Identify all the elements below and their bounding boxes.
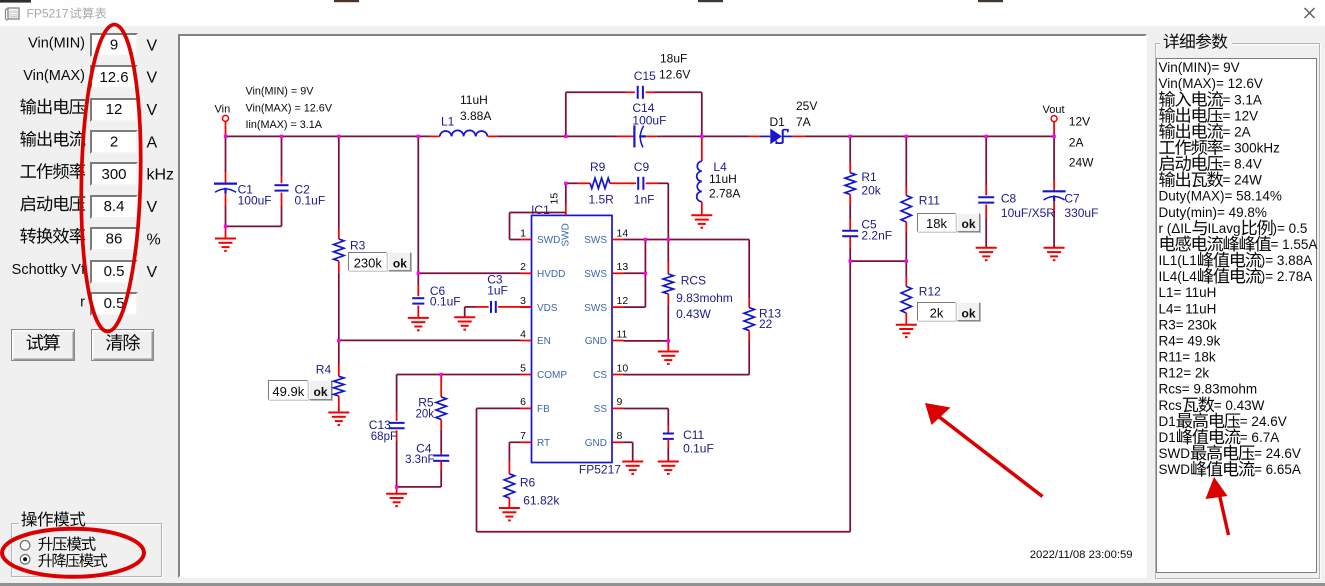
button 试算 <box>11 329 75 361</box>
pin 8 GND stub <box>585 430 624 449</box>
svg-text:ok: ok <box>393 257 407 271</box>
parameter line Vin(MAX)= 12.6V <box>1159 76 1263 91</box>
ground below C8 <box>976 248 997 260</box>
pin 2 HVDD stub <box>520 261 565 280</box>
input value 300 <box>101 166 126 183</box>
svg-text:R4: R4 <box>316 363 332 377</box>
svg-text:V: V <box>147 102 158 119</box>
svg-text:C8: C8 <box>1001 192 1017 206</box>
pin 11 GND stub <box>585 328 628 347</box>
svg-text:C7: C7 <box>1064 192 1080 206</box>
unit V <box>147 37 158 54</box>
svg-text:7: 7 <box>520 430 526 442</box>
label C11 0.1uF <box>683 428 714 455</box>
resistor R3 <box>334 136 344 340</box>
svg-text:= 12V: = 12V <box>1223 108 1259 123</box>
resistor R1 <box>845 136 855 219</box>
red ellipse around radio buttons <box>2 529 144 577</box>
svg-text:Schottky Vf: Schottky Vf <box>12 262 86 278</box>
svg-text:IC1: IC1 <box>531 203 550 217</box>
button 清除 <box>91 329 154 361</box>
svg-text:25V: 25V <box>796 99 817 113</box>
svg-text:SWS: SWS <box>584 235 607 246</box>
pin 12 SWS stub <box>584 295 628 314</box>
Vin terminal <box>215 103 231 136</box>
svg-text:0.5: 0.5 <box>104 263 125 280</box>
wire SS pin9 to C11 <box>624 409 669 426</box>
svg-text:A: A <box>147 134 158 151</box>
wire bottom of compensation branch <box>397 486 442 488</box>
wire R3 to EN and resistor R4 <box>334 341 344 413</box>
resistor R13 <box>744 240 754 375</box>
parameter line D1最高电压= 24.6V <box>1159 413 1287 429</box>
svg-text:ok: ok <box>961 217 975 231</box>
input box <box>90 130 138 154</box>
wire SWS pin14 node <box>624 239 750 241</box>
svg-text:9: 9 <box>110 36 118 53</box>
window bottom edge <box>0 583 1325 586</box>
label R11 <box>919 194 940 208</box>
radio label 升压模式 <box>38 537 95 551</box>
svg-text:= 300kHz: = 300kHz <box>1223 141 1281 156</box>
svg-text:R3: R3 <box>350 239 366 253</box>
svg-text:20k: 20k <box>861 183 881 197</box>
svg-text:%: % <box>147 231 161 248</box>
unit V <box>147 264 158 281</box>
svg-text:100uF: 100uF <box>238 194 272 208</box>
svg-text:4: 4 <box>520 328 526 340</box>
input row label 输出电压 <box>20 98 85 114</box>
svg-text:2: 2 <box>110 134 118 151</box>
svg-text:Iin(MAX) = 3.1A: Iin(MAX) = 3.1A <box>246 119 323 131</box>
capacitor C8 <box>978 136 994 247</box>
svg-text:SS: SS <box>594 404 608 415</box>
pin 6 FB stub <box>520 396 550 415</box>
svg-text:)= 0.5: )= 0.5 <box>1273 221 1308 236</box>
ground below C3 wire <box>454 317 475 329</box>
capacitor C5 <box>842 219 858 261</box>
red arrow pointing at SWD峰值电流 line <box>1206 477 1229 535</box>
svg-text:D1: D1 <box>1159 430 1176 445</box>
IC1 FP5217 body <box>532 215 613 462</box>
parameter line 输出瓦数= 24W <box>1159 171 1262 187</box>
svg-text:R1: R1 <box>861 170 877 184</box>
ok label <box>393 257 407 271</box>
value text 2k <box>930 306 944 321</box>
svg-text:Duty(MAX)= 58.14%: Duty(MAX)= 58.14% <box>1159 189 1282 204</box>
label C7 330uF <box>1064 192 1098 220</box>
svg-text:SWD: SWD <box>537 235 560 246</box>
svg-text:CS: CS <box>593 370 607 381</box>
capacitor C3 on VDS pin <box>465 301 532 317</box>
label R13 22 <box>759 306 781 331</box>
label L4 11uH 2.78A <box>709 160 740 201</box>
button 清除 label <box>106 334 140 351</box>
svg-text:8: 8 <box>617 430 623 442</box>
unit V <box>147 70 158 87</box>
feedback node wire C5 R11 R12 <box>850 260 906 262</box>
radio button 升降压模式 (selected) <box>20 555 30 565</box>
svg-text:Vin(MIN)= 9V: Vin(MIN)= 9V <box>1159 60 1240 75</box>
value text 18k <box>926 216 947 231</box>
ground below L4 <box>691 215 712 227</box>
parameter line 工作频率= 300kHz <box>1159 139 1280 155</box>
svg-text:61.82k: 61.82k <box>523 493 560 507</box>
dark fragments of background window along top edge <box>0 0 1003 3</box>
parameter line L1= 11uH <box>1159 285 1217 300</box>
parameter line Duty(min)= 49.8% <box>1159 205 1267 220</box>
wire bus C14 to D1 <box>662 135 750 137</box>
wire feedback node down to bottom loop <box>849 261 851 532</box>
label RCS 9.83mohm 0.43W <box>676 274 733 321</box>
svg-text:11: 11 <box>617 328 628 340</box>
svg-text:R3= 230k: R3= 230k <box>1159 317 1217 332</box>
svg-text:FP5217: FP5217 <box>27 7 69 21</box>
red arrow annotation in schematic <box>925 403 1043 497</box>
capacitor C14 polarized on bus <box>617 125 662 147</box>
parameter line R3= 230k <box>1159 317 1217 332</box>
svg-text:12: 12 <box>106 101 123 118</box>
label C5 2.2nF <box>861 218 892 243</box>
label C8 10uF/X5R <box>1001 192 1055 220</box>
svg-text:R11= 18k: R11= 18k <box>1159 350 1216 365</box>
svg-text:13: 13 <box>617 261 629 273</box>
input row label 输出电流 <box>20 131 85 147</box>
svg-text:12.6V: 12.6V <box>659 67 690 81</box>
svg-text:C11: C11 <box>683 428 704 442</box>
svg-text:230k: 230k <box>354 256 383 271</box>
svg-text:Vin(MAX): Vin(MAX) <box>23 68 85 84</box>
ok button <box>309 380 332 399</box>
parameter line IL1(L1峰值电流)= 3.88A <box>1159 252 1313 268</box>
ground below R4 <box>328 413 349 425</box>
svg-text:86: 86 <box>106 231 123 248</box>
capacitor C6 <box>412 273 424 317</box>
svg-text:10uF/X5R: 10uF/X5R <box>1001 206 1055 220</box>
svg-text:100uF: 100uF <box>632 113 666 127</box>
unit V <box>147 102 158 119</box>
wire main input bus <box>226 135 430 137</box>
svg-text:D1: D1 <box>770 115 786 129</box>
label D1 25V 7A <box>770 99 818 129</box>
window title bar <box>0 0 1325 26</box>
svg-text:ILavg: ILavg <box>1208 221 1241 236</box>
schematic annotation Vin(MIN) = 9V, Vin(MAX) = 12.6V, Iin(MAX) = 3.1A <box>246 86 333 131</box>
svg-text:GND: GND <box>585 336 607 347</box>
capacitor C2 <box>275 136 289 226</box>
svg-text:49.9k: 49.9k <box>272 384 304 399</box>
pin 10 CS stub <box>593 362 628 381</box>
svg-text:L1: L1 <box>441 114 455 128</box>
label R6 61.82k <box>520 476 560 508</box>
groupbox label 详细参数 <box>1160 33 1232 49</box>
radio label 升降压模式 <box>38 553 107 567</box>
label R5 20k <box>415 396 434 421</box>
ok button <box>388 252 411 271</box>
svg-text:22: 22 <box>759 317 773 331</box>
svg-text:Vin(MIN): Vin(MIN) <box>28 36 85 52</box>
input row label Vin(MIN) <box>28 36 85 52</box>
ground below R6 <box>499 508 520 520</box>
svg-text:SWD: SWD <box>1159 446 1191 461</box>
value box 49.9k <box>268 380 308 399</box>
ground at pin11 RCS node <box>658 341 679 364</box>
svg-text:L4= 11uH: L4= 11uH <box>1159 301 1217 316</box>
input value 0.5 <box>104 263 125 280</box>
wire bus L1 to C14 <box>497 135 617 137</box>
ground below compensation branch <box>386 487 407 506</box>
parameter line Vin(MIN)= 9V <box>1159 60 1240 75</box>
svg-text:14: 14 <box>617 227 629 239</box>
wire EN pin4 <box>339 339 521 341</box>
input value 0.5 <box>104 295 125 312</box>
label C4 3.3nF <box>405 442 434 466</box>
parameter line R12= 2k <box>1159 366 1210 381</box>
svg-text:10: 10 <box>617 362 629 374</box>
label R3 <box>350 239 366 253</box>
value box 2k <box>917 302 957 321</box>
svg-text:SWD: SWD <box>1159 462 1191 477</box>
input box <box>90 292 138 316</box>
svg-text:V: V <box>147 70 158 87</box>
ok button <box>957 302 980 321</box>
parameter line 电感电流峰峰值= 1.55A <box>1161 236 1318 252</box>
diode D1 schottky <box>750 129 805 145</box>
upper loop with C15 <box>566 86 702 137</box>
svg-text:V: V <box>147 37 158 54</box>
label C15 18uF 12.6V <box>634 51 691 83</box>
svg-text:2022/11/08 23:00:59: 2022/11/08 23:00:59 <box>1030 549 1133 561</box>
ground below R12 <box>896 325 917 337</box>
value text 49.9k <box>272 384 304 399</box>
input row label r <box>80 294 85 310</box>
window title bar icon <box>6 8 20 21</box>
input box <box>90 162 138 186</box>
label IC1 <box>531 203 550 217</box>
capacitor C4 <box>433 453 449 487</box>
groupbox 详细参数 <box>1155 43 1320 579</box>
parameter listbox <box>1156 58 1317 574</box>
parameter line R4= 49.9k <box>1159 334 1221 349</box>
svg-text:kHz: kHz <box>147 167 175 184</box>
svg-text:R11: R11 <box>919 194 940 208</box>
capacitor C7 polarized <box>1043 136 1066 247</box>
button 试算 label <box>27 334 60 351</box>
input box <box>90 65 138 89</box>
parameter line L4= 11uH <box>1159 301 1217 316</box>
wire HVDD branch from bus <box>417 136 419 273</box>
parameter line 输出电流= 2A <box>1159 123 1250 139</box>
parameter line IL4(L4峰值电流)= 2.78A <box>1159 268 1313 284</box>
svg-text:r: r <box>80 294 85 310</box>
svg-text:0.43W: 0.43W <box>676 307 711 321</box>
pin 5 COMP stub <box>520 362 567 381</box>
svg-text:2: 2 <box>520 261 526 273</box>
input value 8.4 <box>104 198 125 215</box>
ground below C11 <box>658 462 679 474</box>
label C1 100uF <box>238 183 272 208</box>
inductor L4 <box>697 136 702 214</box>
svg-text:V: V <box>147 264 158 281</box>
svg-text:C13: C13 <box>369 418 391 432</box>
svg-text:EN: EN <box>537 336 551 347</box>
input value 12.6 <box>99 69 128 86</box>
svg-text:= 1.55A: = 1.55A <box>1271 237 1318 252</box>
svg-text:Duty(min)= 49.8%: Duty(min)= 49.8% <box>1159 205 1267 220</box>
svg-text:20k: 20k <box>415 408 434 420</box>
resistor R12 <box>901 261 911 324</box>
svg-text:Rcs: Rcs <box>1159 398 1182 413</box>
unit % <box>147 231 161 248</box>
svg-text:Vin(MAX) = 12.6V: Vin(MAX) = 12.6V <box>246 102 333 114</box>
label R1 20k <box>861 170 881 198</box>
R9 C9 snubber line <box>566 177 669 240</box>
window title text FP5217试算表 <box>27 7 107 21</box>
input row label 启动电压 <box>20 195 85 211</box>
pin 13 SWS stub <box>584 261 628 280</box>
wire CS pin10 <box>624 374 750 376</box>
svg-text:C15: C15 <box>634 69 656 83</box>
label C6 0.1uF <box>430 284 461 309</box>
svg-text:SWS: SWS <box>584 303 607 314</box>
pin 15 stub and label <box>549 183 572 246</box>
svg-text:9.83mohm: 9.83mohm <box>676 291 733 305</box>
parameter line Rcs= 9.83mohm <box>1159 382 1258 397</box>
input row label 工作频率 <box>20 163 85 179</box>
input box <box>90 33 138 57</box>
svg-text:11uH: 11uH <box>709 172 737 186</box>
ok label <box>961 307 975 321</box>
wire GND pin11 <box>624 340 669 342</box>
svg-text:3: 3 <box>520 295 526 307</box>
svg-text:18uF: 18uF <box>660 51 687 65</box>
svg-text:)= 2.78A: )= 2.78A <box>1261 269 1312 284</box>
svg-text:24W: 24W <box>1069 155 1094 169</box>
capacitor C1 polarized <box>214 136 237 226</box>
wire bottom feedback loop <box>477 408 851 531</box>
label C14 100uF <box>632 101 666 128</box>
svg-text:2.2nF: 2.2nF <box>861 228 892 242</box>
input box <box>90 195 138 219</box>
parameter line r (ΔIL与ILavg比例)= 0.5 <box>1159 220 1308 236</box>
svg-text:= 6.7A: = 6.7A <box>1240 430 1279 445</box>
svg-text:= 24.6V: = 24.6V <box>1240 414 1287 429</box>
svg-text:)= 3.88A: )= 3.88A <box>1261 253 1312 268</box>
svg-text:68pF: 68pF <box>371 431 397 443</box>
pin 4 EN stub <box>520 328 551 347</box>
wire C2 bottom to C1 bottom <box>226 225 282 227</box>
schematic panel <box>178 34 1147 578</box>
svg-text:= 24.6V: = 24.6V <box>1254 446 1301 461</box>
svg-text:Vin(MIN) = 9V: Vin(MIN) = 9V <box>246 86 315 98</box>
wire RT pin7 and resistor R6 <box>504 442 520 507</box>
svg-text:ok: ok <box>961 307 975 321</box>
svg-text:L1= 11uH: L1= 11uH <box>1159 285 1217 300</box>
svg-text:GND: GND <box>585 438 607 449</box>
parameter line SWD最高电压= 24.6V <box>1159 445 1301 461</box>
input value 9 <box>110 36 118 53</box>
ok label <box>961 217 975 231</box>
pin1 SWD loop wire <box>510 213 566 240</box>
svg-text:R6: R6 <box>520 476 536 490</box>
label R12 <box>919 285 941 299</box>
ground below C6 <box>408 318 429 330</box>
ok label <box>313 385 327 399</box>
svg-text:0.1uF: 0.1uF <box>295 193 326 207</box>
svg-text:= 3.1A: = 3.1A <box>1223 92 1262 107</box>
unit kHz <box>147 167 175 184</box>
svg-text:= 8.4V: = 8.4V <box>1223 157 1262 172</box>
svg-text:= 2A: = 2A <box>1223 124 1251 139</box>
svg-text:D1: D1 <box>1159 414 1176 429</box>
svg-text:0.5: 0.5 <box>104 295 125 312</box>
svg-text:18k: 18k <box>926 216 947 231</box>
svg-text:IL4(L4: IL4(L4 <box>1159 269 1198 284</box>
wire COMP compensation branch C13 R5 C4 <box>396 375 398 421</box>
svg-text:1.5R: 1.5R <box>589 192 615 206</box>
pin 3 VDS stub <box>520 295 558 314</box>
window close button X <box>1305 8 1315 18</box>
svg-text:300: 300 <box>101 166 126 183</box>
parameter line R11= 18k <box>1159 350 1216 365</box>
wire SWS pins 13 12 tie <box>624 240 646 308</box>
svg-text:2.78A: 2.78A <box>709 186 740 200</box>
svg-text:12.6: 12.6 <box>99 69 128 86</box>
Vout terminal <box>1043 104 1065 137</box>
input box <box>90 98 138 122</box>
svg-text:FB: FB <box>537 404 550 415</box>
svg-text:IL1(L1: IL1(L1 <box>1159 253 1197 268</box>
groupbox 操作模式 <box>11 523 162 578</box>
svg-text:VDS: VDS <box>537 303 558 314</box>
resistor RCS <box>663 240 673 341</box>
svg-text:1nF: 1nF <box>634 192 655 206</box>
svg-text:ok: ok <box>313 385 327 399</box>
svg-text:0.1uF: 0.1uF <box>430 294 461 308</box>
svg-text:RT: RT <box>537 438 550 449</box>
pin 1 SWD stub <box>520 227 560 246</box>
svg-text:Vout: Vout <box>1043 104 1065 116</box>
svg-text:5: 5 <box>520 362 526 374</box>
parameter line Rcs瓦数= 0.43W <box>1159 396 1265 412</box>
svg-text:Rcs= 9.83mohm: Rcs= 9.83mohm <box>1159 382 1258 397</box>
parameter line 输出电压= 12V <box>1159 107 1258 123</box>
svg-text:C9: C9 <box>634 160 650 174</box>
unit V <box>147 199 158 216</box>
label C3 1uF <box>487 272 508 297</box>
svg-text:12: 12 <box>617 295 629 307</box>
radio button 升压模式 (unselected) <box>20 541 30 551</box>
inductor L1 <box>430 130 498 136</box>
svg-text:2A: 2A <box>1069 135 1084 149</box>
label C13 68pF <box>369 418 397 443</box>
input value 12 <box>106 101 123 118</box>
svg-text:Vin: Vin <box>215 103 231 115</box>
svg-text:SWD: SWD <box>561 223 572 246</box>
wire HVDD pin2 <box>418 272 520 274</box>
input value 86 <box>106 231 123 248</box>
svg-text:SWS: SWS <box>584 269 607 280</box>
input row label Vin(MAX) <box>23 68 85 84</box>
wire bus D1 to Vout <box>805 135 1054 137</box>
resistor R11 <box>901 136 911 261</box>
svg-text:11uH: 11uH <box>460 93 488 107</box>
ground below C7 <box>1044 248 1065 260</box>
pin 14 SWS stub <box>584 227 628 246</box>
svg-text:HVDD: HVDD <box>537 269 565 280</box>
label 12V 2A 24W <box>1069 114 1094 169</box>
svg-text:12V: 12V <box>1069 114 1090 128</box>
